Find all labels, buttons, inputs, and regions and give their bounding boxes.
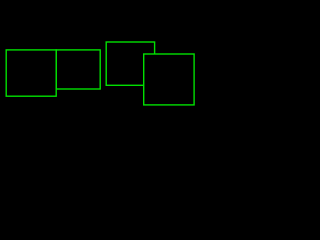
rectangle left (node A) [6,50,56,96]
rectangle right, filled black, occludes node C (node D) [144,54,194,105]
rectangle mid-left (node B) [56,50,100,89]
rectangle upper-right (node C) [106,42,154,85]
